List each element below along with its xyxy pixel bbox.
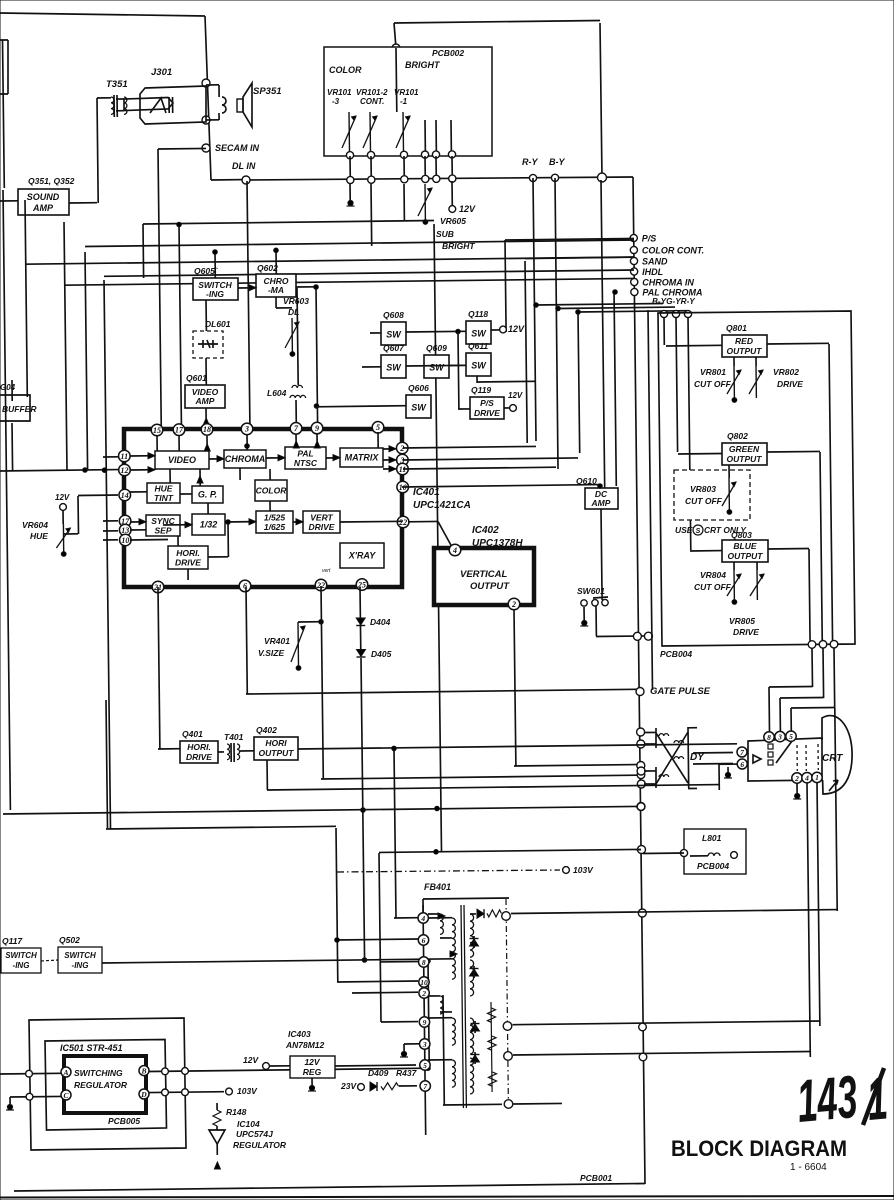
block SYNC	[146, 515, 180, 536]
svg-text:S: S	[696, 528, 701, 535]
svg-text:TINT: TINT	[154, 493, 174, 503]
pin 2 IC402	[508, 598, 520, 610]
svg-text:P/S: P/S	[480, 398, 494, 408]
wire FB out4	[514, 1102, 563, 1105]
wire to L801	[643, 852, 684, 855]
wire Q402 out to CRT pin7	[298, 744, 737, 749]
block 1/32	[192, 514, 225, 535]
node DL bus	[449, 175, 456, 182]
svg-text:12V: 12V	[55, 493, 70, 502]
block HUE	[147, 483, 180, 503]
svg-text:7: 7	[740, 748, 744, 757]
wire 103V chain	[337, 870, 560, 872]
wire pin6 feed	[719, 763, 737, 765]
node SECAM IN	[202, 144, 210, 152]
pin 17 top	[173, 424, 185, 436]
svg-text:5: 5	[789, 732, 793, 741]
node PCB002 bottom	[448, 151, 455, 158]
svg-text:VR101: VR101	[327, 88, 352, 97]
node G-Y in	[672, 310, 679, 317]
svg-text:AMP: AMP	[32, 203, 54, 213]
diode D405	[357, 650, 366, 658]
pin FB 2	[419, 988, 429, 998]
svg-text:HORI: HORI	[265, 738, 287, 748]
IC IC401 UPC1421CA main block	[124, 429, 402, 587]
node x641-1057	[639, 1053, 647, 1061]
wire FB out2	[513, 1021, 821, 1025]
nodes PCB004 bottom connectors	[808, 641, 816, 649]
svg-text:VR801: VR801	[700, 367, 726, 377]
resistor R148	[216, 1103, 218, 1110]
PCB002 board box	[324, 47, 492, 156]
svg-text:REG: REG	[303, 1067, 322, 1077]
wire FB pin6 feed	[337, 939, 418, 940]
node PCB002 bottom	[367, 151, 374, 158]
svg-text:PAL CHROMA: PAL CHROMA	[642, 288, 702, 298]
svg-text:D409: D409	[368, 1068, 389, 1078]
svg-text:IC104: IC104	[237, 1119, 260, 1129]
wire Q601-pin8	[205, 408, 207, 424]
svg-text:HORI.: HORI.	[187, 742, 211, 752]
svg-text:Q117: Q117	[2, 936, 23, 946]
svg-text:Q801: Q801	[726, 323, 747, 333]
pin FB 9	[419, 1017, 429, 1027]
wire R-Y drop to pin2	[403, 446, 536, 448]
svg-text:5: 5	[423, 1061, 427, 1070]
pin CRT 3	[775, 731, 785, 741]
svg-text:SAND: SAND	[642, 257, 668, 267]
wire CHROMA IN run	[104, 270, 634, 276]
svg-text:R148: R148	[226, 1107, 247, 1117]
node B-Y	[551, 174, 558, 181]
wire GREEN out right	[767, 450, 820, 453]
pin FB 7	[420, 1081, 430, 1091]
svg-text:5: 5	[376, 423, 380, 432]
wire FB top rail	[423, 898, 509, 899]
svg-text:Q118: Q118	[468, 309, 488, 319]
wire FB pin2 feed	[352, 991, 418, 994]
svg-text:G04: G04	[0, 383, 16, 392]
svg-text:12V: 12V	[304, 1057, 320, 1067]
block PAL	[285, 447, 326, 469]
svg-text:17: 17	[175, 426, 184, 435]
pin 22 bottom	[315, 579, 327, 591]
wire yoke to CRT pins 7,6	[693, 752, 733, 755]
block X'RAY	[340, 543, 384, 568]
pin 13 left	[119, 524, 131, 536]
svg-text:BLUE: BLUE	[733, 541, 756, 551]
FB top diode + resistor	[470, 913, 476, 915]
wire Q602-L604	[297, 288, 298, 385]
wire to RED in	[663, 317, 665, 345]
svg-text:-3: -3	[332, 97, 340, 106]
svg-text:R437: R437	[396, 1068, 418, 1078]
svg-text:12: 12	[120, 466, 128, 475]
wire long vertical x434	[434, 224, 442, 852]
svg-text:VERTICAL: VERTICAL	[460, 569, 508, 580]
wire left pin feeds	[0, 470, 118, 471]
wire pot drop x404	[403, 184, 405, 221]
svg-text:4: 4	[452, 546, 457, 555]
svg-text:NTSC: NTSC	[294, 458, 318, 468]
board PCB004 box	[658, 311, 855, 646]
VR605 SUB BRIGHT pot	[418, 184, 432, 224]
svg-text:SW: SW	[411, 403, 427, 413]
svg-text:IC401: IC401	[413, 487, 440, 498]
node DY-5	[637, 767, 645, 775]
svg-text:PCB004: PCB004	[660, 649, 692, 659]
svg-text:DRIVE: DRIVE	[186, 752, 212, 762]
node SAND	[630, 257, 637, 264]
wire 12V reg out to FB pin5	[335, 1065, 416, 1066]
svg-text:DRIVE: DRIVE	[474, 408, 500, 418]
svg-text:6: 6	[740, 760, 744, 769]
node IHDL	[631, 268, 638, 275]
node PCB002 top	[392, 44, 400, 52]
svg-text:Q606: Q606	[408, 383, 429, 393]
pin FB 10	[419, 977, 429, 987]
wire left edge vertical	[3, 190, 10, 810]
node CHROMA IN	[631, 278, 638, 285]
wire R-Y drop	[533, 178, 536, 441]
wire video-chroma	[209, 458, 224, 460]
svg-text:REGULATOR: REGULATOR	[233, 1140, 287, 1150]
pin C	[61, 1090, 71, 1100]
svg-text:CONT.: CONT.	[360, 97, 384, 106]
svg-text:G. P.: G. P.	[198, 490, 217, 500]
ground FB pin3	[404, 1043, 419, 1045]
svg-text:3: 3	[777, 732, 782, 741]
wire COLOR CONT run	[85, 240, 634, 247]
svg-text:GREEN: GREEN	[729, 444, 760, 454]
svg-text:-ING: -ING	[206, 289, 224, 299]
svg-text:COLOR: COLOR	[329, 65, 362, 75]
block VERT	[303, 511, 340, 533]
svg-text:CUT OFF: CUT OFF	[685, 496, 723, 506]
svg-text:SW: SW	[471, 329, 487, 339]
svg-text:COLOR CONT.: COLOR CONT.	[642, 246, 704, 256]
wire chroma-pal	[266, 457, 285, 459]
pin 5 top	[372, 422, 384, 434]
svg-text:6: 6	[422, 936, 426, 945]
coil L801 box	[684, 829, 746, 874]
wire left riser x85	[85, 252, 88, 470]
svg-text:L604: L604	[267, 388, 287, 398]
wire Q402 bottom	[266, 760, 268, 790]
wires IC501 right D row	[149, 1091, 224, 1094]
wire G-Y drop to pin3	[403, 458, 578, 460]
wire PAL CHROMA run	[64, 278, 634, 285]
wire Q605 top	[214, 252, 216, 278]
top-left partial box	[0, 40, 8, 94]
wire FB pin column	[423, 905, 426, 1135]
wires IC501 right B row	[149, 1068, 428, 1071]
wire FB box left drop	[379, 853, 381, 1022]
svg-text:PCB005: PCB005	[108, 1116, 140, 1126]
svg-text:Q502: Q502	[59, 935, 80, 945]
svg-text:Q401: Q401	[182, 729, 203, 739]
svg-text:L801: L801	[702, 833, 722, 843]
svg-text:DRIVE: DRIVE	[733, 627, 759, 637]
wire y828	[106, 826, 336, 829]
node PCB002 bottom	[400, 151, 407, 158]
FB resistor column	[491, 1002, 492, 1092]
svg-text:BUFFER: BUFFER	[2, 404, 37, 414]
wire x434 to L801 line	[379, 849, 641, 852]
svg-text:D: D	[140, 1090, 147, 1099]
svg-text:CUT OFF: CUT OFF	[694, 582, 732, 592]
wire to BLUE in	[688, 317, 691, 550]
svg-text:12V: 12V	[459, 204, 476, 214]
svg-text:Q611: Q611	[468, 341, 488, 351]
pin CRT 2	[792, 773, 802, 783]
svg-text:IC403: IC403	[288, 1029, 311, 1039]
node PAL CHROMA	[631, 288, 638, 295]
wire DL IN line left part	[211, 179, 246, 181]
pin 18 top	[201, 424, 213, 436]
wire x428 down	[428, 961, 429, 1070]
node DL bus	[401, 176, 408, 183]
svg-text:A: A	[62, 1068, 68, 1077]
block G. P.	[192, 486, 223, 503]
pin 17 left	[119, 515, 131, 527]
node DY-6	[637, 780, 645, 788]
node L801 in	[680, 849, 687, 856]
FB primary windings	[440, 914, 443, 934]
node SW601 bus2	[644, 632, 652, 640]
block MATRIX	[340, 448, 383, 467]
svg-text:AN78M12: AN78M12	[285, 1040, 325, 1050]
pin CRT 7	[737, 747, 747, 757]
pin 15 top	[151, 424, 163, 436]
node R-Y in	[684, 310, 691, 317]
node x641-1027	[639, 1023, 647, 1031]
svg-text:MATRIX: MATRIX	[345, 453, 380, 463]
wire Q605-DL601	[205, 300, 207, 331]
node R-Y	[529, 174, 536, 181]
svg-text:1/32: 1/32	[200, 520, 218, 530]
node DY-4	[637, 740, 645, 748]
wire CRT pin1 drop	[817, 783, 820, 1026]
wire PCB001 bottom edge	[14, 1184, 645, 1192]
pin 22 right	[397, 516, 409, 528]
svg-text:VR804: VR804	[700, 570, 726, 580]
wire sync-132	[163, 524, 192, 526]
pin CRT 8	[764, 732, 774, 742]
svg-text:Q802: Q802	[727, 431, 748, 441]
wire SECAM to pin5	[158, 147, 206, 150]
block HORI.	[168, 546, 208, 569]
svg-text:9: 9	[423, 1018, 427, 1027]
svg-text:PCB001: PCB001	[580, 1173, 612, 1183]
wire chroma-color stub	[239, 468, 241, 480]
svg-text:12V: 12V	[243, 1055, 259, 1065]
svg-text:RED: RED	[735, 336, 753, 346]
wire CRT pin4 drop	[807, 783, 810, 1057]
pin D	[139, 1089, 149, 1099]
wire to GREEN in	[676, 317, 678, 452]
wire pin10 to DC amp	[402, 485, 600, 487]
block 1/525	[256, 511, 293, 533]
svg-text:1/525: 1/525	[264, 512, 286, 522]
svg-text:P/S: P/S	[642, 234, 657, 244]
FB output chain line	[506, 899, 508, 1104]
pin A	[61, 1067, 71, 1077]
svg-text:OUTPUT: OUTPUT	[728, 551, 764, 561]
svg-text:8: 8	[422, 958, 426, 967]
svg-text:2: 2	[794, 774, 799, 783]
wire sync-hori	[177, 536, 179, 546]
svg-text:UPC1421CA: UPC1421CA	[413, 500, 471, 511]
wire 132-525	[225, 521, 256, 523]
wire vert-pin22	[340, 520, 402, 523]
pin 25 bottom	[356, 579, 368, 591]
pin 14 left	[119, 489, 131, 501]
FB diodes	[470, 939, 479, 947]
wire pin25 long down	[361, 658, 365, 962]
svg-text:COLOR: COLOR	[256, 486, 288, 496]
VR101-2 pot	[363, 112, 377, 152]
pin FB 3	[420, 1039, 430, 1049]
svg-text:-MA: -MA	[268, 285, 284, 295]
wire DLIN to pin3	[247, 181, 250, 424]
pot VR805 drive	[756, 562, 758, 570]
node DL bus	[368, 176, 375, 183]
svg-text:SW: SW	[386, 330, 402, 340]
svg-text:VR101: VR101	[394, 88, 419, 97]
wire pin11 stub	[103, 456, 118, 458]
pin 9 top	[311, 422, 323, 434]
svg-text:8: 8	[767, 733, 771, 742]
svg-text:Q119: Q119	[471, 385, 491, 395]
wire DL IN bus	[246, 177, 633, 180]
wire RED out right	[767, 342, 829, 345]
svg-text:AMP: AMP	[195, 396, 215, 406]
svg-text:V.SIZE: V.SIZE	[258, 648, 284, 658]
svg-text:vert: vert	[322, 568, 331, 574]
wire pin7a riser	[179, 224, 181, 424]
svg-text:9: 9	[315, 424, 319, 433]
node DY-3	[637, 728, 645, 736]
regulator IC104	[209, 1130, 225, 1144]
wire buffer drop to pin12 line	[11, 423, 14, 471]
wire P/S run	[505, 239, 634, 241]
svg-text:CHROMA IN: CHROMA IN	[642, 278, 694, 288]
svg-text:DRIVE: DRIVE	[309, 522, 335, 532]
svg-text:10: 10	[121, 536, 129, 545]
svg-text:-ING: -ING	[72, 961, 89, 970]
svg-text:CUT OFF: CUT OFF	[694, 379, 732, 389]
svg-text:Q601: Q601	[186, 373, 207, 383]
wire left riser x25	[25, 200, 27, 397]
diode D404	[359, 587, 362, 652]
svg-text:103V: 103V	[237, 1086, 258, 1096]
wire Q502 out bus	[102, 959, 452, 963]
grand right vertical wire	[633, 177, 645, 1184]
FB bottom rail	[443, 1103, 502, 1106]
svg-text:PCB002: PCB002	[432, 48, 464, 58]
wire video-gp	[199, 469, 201, 486]
svg-text:25: 25	[357, 580, 366, 589]
pin FB 4	[418, 913, 428, 923]
svg-text:1/625: 1/625	[264, 522, 286, 532]
svg-text:IC402: IC402	[472, 525, 499, 536]
wire DL601-Q601	[205, 358, 207, 385]
wire Q602 to pin9 riser	[316, 287, 318, 424]
svg-text:VR604: VR604	[22, 520, 48, 530]
node COLOR CONT.	[630, 246, 637, 253]
svg-text:HUE: HUE	[30, 531, 48, 541]
node x641-849	[638, 846, 646, 854]
wire IHDL run	[25, 257, 634, 264]
svg-text:DL IN: DL IN	[232, 161, 256, 171]
pin 3 right	[397, 454, 409, 466]
node GATE PULSE	[636, 688, 644, 696]
svg-text:Q609: Q609	[426, 343, 447, 353]
wire SAND run	[525, 257, 634, 258]
node DL/PCB002 junction	[598, 173, 607, 182]
CRT grid dashed lines	[796, 745, 798, 771]
block CHROMA	[224, 450, 266, 468]
svg-text:12V: 12V	[508, 391, 523, 400]
pin 2 right	[396, 442, 408, 454]
svg-text:Q607: Q607	[383, 343, 405, 353]
wire top feed to PCB002	[394, 21, 600, 24]
CRT pin2 ground	[796, 783, 798, 793]
svg-text:Q608: Q608	[383, 310, 404, 320]
node DL bus	[347, 176, 354, 183]
node PCB002 bottom	[421, 151, 428, 158]
node SW601 bus	[633, 632, 641, 640]
wire video-hue	[169, 469, 171, 483]
svg-text:VR805: VR805	[729, 616, 755, 626]
wire Q607 left stub	[362, 366, 381, 368]
svg-text:7: 7	[423, 1082, 427, 1091]
wire IC402 pin2 down	[514, 610, 516, 766]
pin FB 8	[419, 957, 429, 967]
wire x648 vertical	[648, 310, 653, 690]
svg-text:D405: D405	[371, 649, 392, 659]
node x641-913	[638, 909, 646, 917]
svg-text:18: 18	[203, 425, 211, 434]
wire FB out3	[513, 1052, 810, 1056]
svg-text:J301: J301	[151, 67, 172, 78]
svg-text:SW: SW	[471, 361, 487, 371]
svg-text:USE: USE	[675, 525, 693, 535]
svg-text:SWITCH: SWITCH	[5, 951, 37, 960]
svg-text:SOUND: SOUND	[27, 192, 60, 202]
wire hue-gp	[180, 493, 192, 495]
svg-text:143: 143	[794, 1063, 860, 1135]
node DL bus	[422, 175, 429, 182]
pot VR803 cut off (dashed box)	[674, 470, 750, 520]
svg-text:VR401: VR401	[264, 636, 290, 646]
svg-text:OUTPUT: OUTPUT	[259, 748, 295, 758]
wire hori right	[208, 556, 228, 558]
wire G-Y drop	[578, 312, 580, 453]
wire BLUE out right	[768, 548, 809, 551]
block VIDEO	[155, 451, 209, 469]
svg-text:12V: 12V	[508, 324, 525, 334]
svg-text:SW: SW	[386, 363, 402, 373]
svg-text:1: 1	[815, 773, 819, 782]
svg-text:SW: SW	[429, 363, 445, 373]
svg-text:VR101-2: VR101-2	[356, 88, 388, 97]
pin 10 left	[120, 534, 132, 546]
svg-text:SECAM IN: SECAM IN	[215, 143, 260, 153]
pin CRT 1	[812, 772, 822, 782]
svg-text:CRT: CRT	[822, 753, 843, 764]
